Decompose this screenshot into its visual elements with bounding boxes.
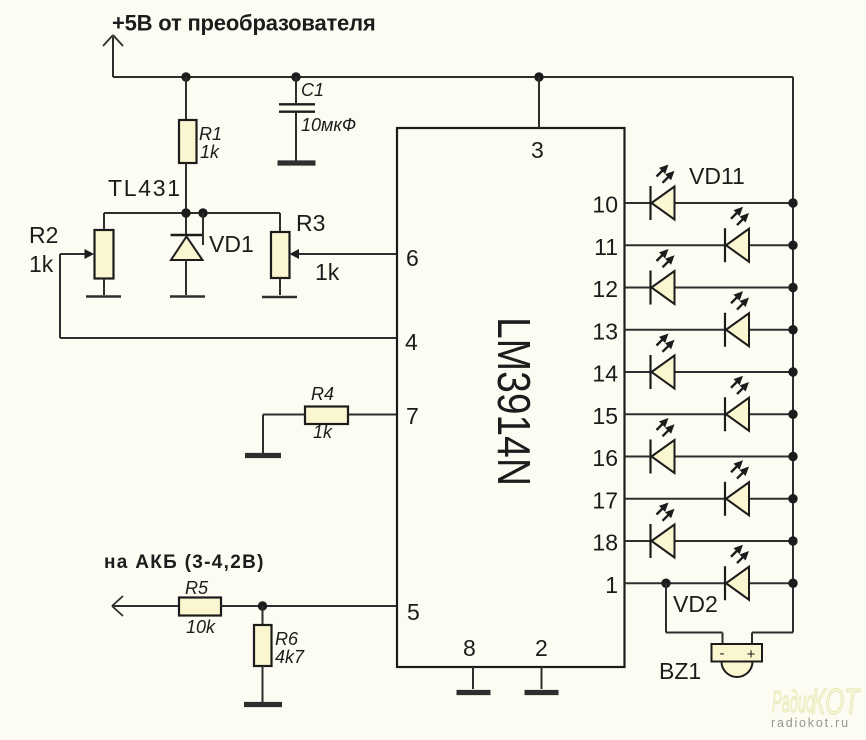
- LED VD9: [651, 249, 675, 305]
- svg-text:5: 5: [407, 599, 420, 625]
- ground VD1: [170, 295, 205, 298]
- svg-text:3: 3: [531, 137, 544, 163]
- LED VD4: [725, 460, 749, 516]
- node junction pin3/top rail: [534, 72, 543, 81]
- node bus junction row 12: [788, 283, 797, 292]
- potentiometer R2: [95, 230, 114, 279]
- svg-text:R1: R1: [199, 124, 222, 144]
- wire pin 11 row: [625, 244, 794, 246]
- node bus junction row 13: [788, 325, 797, 334]
- ground C1: [278, 160, 316, 165]
- ground R6: [244, 702, 282, 707]
- svg-text:C1: C1: [301, 80, 324, 100]
- wire pin 12 row: [625, 287, 794, 289]
- svg-text:R5: R5: [185, 578, 209, 598]
- wire pin 14 row: [625, 371, 794, 373]
- svg-text:Радио: Радио: [772, 685, 814, 720]
- svg-text:12: 12: [592, 276, 618, 302]
- svg-text:13: 13: [592, 318, 618, 344]
- op-amp U1 LM3914N body: [397, 128, 625, 667]
- wire pin 13 row: [625, 329, 794, 331]
- node bus junction row 10: [788, 198, 797, 207]
- LED VD5: [651, 418, 675, 474]
- wire R1 top: [185, 77, 187, 121]
- svg-text:1k: 1k: [200, 142, 220, 162]
- svg-text:-: -: [720, 645, 725, 662]
- wire pin 16 row: [625, 456, 794, 458]
- svg-text:BZ1: BZ1: [659, 658, 701, 684]
- svg-text:17: 17: [592, 487, 618, 513]
- svg-text:R3: R3: [296, 210, 325, 236]
- svg-text:2: 2: [535, 635, 548, 661]
- wire buzzer right lead: [752, 633, 793, 646]
- wire pin 17 row: [625, 498, 794, 500]
- node junction C1/top rail: [291, 72, 300, 81]
- capacitor C1: [279, 77, 315, 161]
- watermark RadioKOT: [772, 681, 861, 722]
- svg-text:10мкФ: 10мкФ: [301, 115, 356, 135]
- node TL431 ref junction: [198, 208, 207, 217]
- node junction buzzer tap on pin 1 row: [661, 579, 670, 588]
- node bus junction row 17: [788, 494, 797, 503]
- node bus junction row 14: [788, 367, 797, 376]
- wiper arrow R3 from pin 6: [290, 249, 398, 259]
- wire +5V top rail: [113, 76, 793, 78]
- LED VD3: [651, 503, 675, 559]
- resistor R5: [179, 598, 221, 616]
- wire R4 left to ground: [263, 415, 305, 454]
- svg-text:R2: R2: [29, 222, 58, 248]
- svg-text:15: 15: [592, 403, 618, 429]
- potentiometer R3: [271, 232, 290, 278]
- svg-text:18: 18: [592, 530, 618, 556]
- ground R3: [262, 296, 297, 299]
- svg-text:8: 8: [463, 635, 476, 661]
- node TL431 cathode junction: [181, 208, 190, 217]
- svg-text:4: 4: [405, 329, 418, 355]
- svg-text:radiokot.ru: radiokot.ru: [771, 716, 850, 730]
- svg-text:1k: 1k: [313, 422, 333, 442]
- wire R1 to TL431 node: [185, 163, 187, 236]
- svg-text:R4: R4: [311, 384, 334, 404]
- LED VD2: [725, 545, 749, 601]
- wiper arrow R2: [60, 249, 94, 259]
- svg-text:VD2: VD2: [673, 591, 718, 617]
- svg-text:R6: R6: [275, 629, 299, 649]
- wire R2 bottom: [103, 279, 105, 296]
- LED VD8: [725, 291, 749, 347]
- wire pin 8 stub: [472, 667, 474, 689]
- svg-text:TL431: TL431: [108, 175, 182, 201]
- node bus junction row 16: [788, 452, 797, 461]
- svg-text:на АКБ (3-4,2В): на АКБ (3-4,2В): [104, 552, 265, 573]
- LED VD6: [725, 376, 749, 432]
- wire pin 18 row: [625, 540, 794, 542]
- wire R3 top: [279, 213, 281, 233]
- node junction R6 tap: [258, 601, 267, 610]
- wire +5V right bus: [792, 77, 794, 633]
- svg-text:4k7: 4k7: [275, 647, 305, 667]
- svg-text:6: 6: [406, 245, 419, 271]
- svg-text:14: 14: [592, 361, 618, 387]
- wire R4 to pin 7: [348, 414, 397, 416]
- svg-text:11: 11: [594, 234, 618, 260]
- ground pin 8: [457, 690, 491, 695]
- ground R4: [245, 453, 281, 458]
- node junction R1/top rail: [181, 72, 190, 81]
- buzzer BZ1: [712, 644, 763, 677]
- wire R6 bottom: [262, 666, 264, 702]
- LED VD7: [651, 334, 675, 390]
- wire pin 1 row: [625, 582, 794, 584]
- wire R2 top: [103, 213, 105, 231]
- ground R2: [86, 295, 121, 298]
- svg-text:LM3914N: LM3914N: [488, 317, 540, 486]
- wire pin 2 stub: [541, 667, 543, 689]
- wire R3 bottom: [279, 278, 281, 295]
- svg-text:16: 16: [592, 445, 618, 471]
- resistor R6: [254, 625, 272, 666]
- resistor R1: [179, 120, 197, 163]
- output arrow to battery: [112, 596, 179, 616]
- resistor R4: [305, 407, 348, 425]
- svg-text:10: 10: [592, 192, 618, 218]
- wire R5 to pin 5: [221, 605, 397, 607]
- wire VD1 to ground: [185, 260, 187, 295]
- power arrow +5V: [103, 35, 123, 77]
- svg-text:+: +: [747, 646, 756, 663]
- node bus junction row 15: [788, 410, 797, 419]
- svg-text:VD1: VD1: [209, 231, 254, 257]
- wire R6 top: [262, 606, 264, 626]
- wire pin 15 row: [625, 413, 794, 415]
- svg-text:+5В от преобразователя: +5В от преобразователя: [112, 11, 376, 36]
- ground pin 2: [525, 690, 559, 695]
- svg-text:1k: 1k: [315, 259, 340, 285]
- svg-text:7: 7: [406, 403, 419, 429]
- wire pin 10 row: [625, 202, 794, 204]
- svg-text:1: 1: [605, 572, 618, 598]
- node bus junction row 18: [788, 536, 797, 545]
- node bus junction row 11: [788, 241, 797, 250]
- wire pin 3 stub: [538, 77, 540, 128]
- wire R2 wiper to pin 4: [60, 254, 397, 338]
- svg-text:10k: 10k: [186, 617, 216, 637]
- wire buzzer left lead: [666, 583, 723, 645]
- wire TL431 node rail: [104, 212, 280, 214]
- svg-text:1k: 1k: [29, 251, 54, 277]
- node bus junction row 1: [788, 579, 797, 588]
- LED VD10: [725, 207, 749, 263]
- shunt reference VD1 TL431: [171, 213, 205, 260]
- LED VD11: [651, 165, 675, 221]
- svg-text:VD11: VD11: [689, 163, 745, 189]
